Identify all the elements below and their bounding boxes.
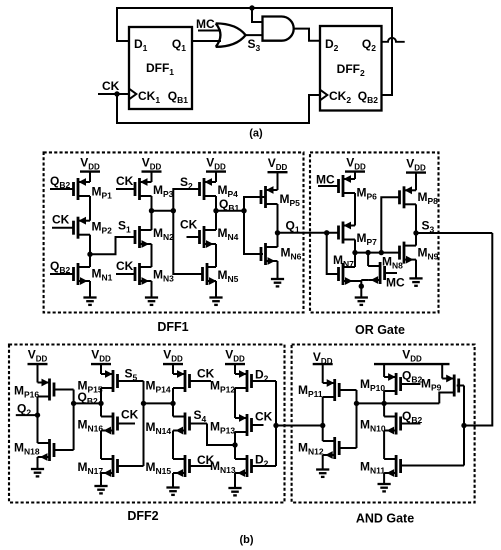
AND gate (part a) (263, 17, 294, 41)
transistor MP6 (PMOS) (318, 175, 355, 197)
transistor MN14 (NMOS, mirrored) (173, 403, 207, 459)
svg-text:MN6: MN6 (281, 246, 302, 262)
VDD supply (DFF2 colD) (225, 348, 245, 375)
wire: OR output S3 to AND gate (246, 34, 263, 36)
svg-text:MP8: MP8 (418, 190, 439, 206)
svg-text:S2: S2 (180, 175, 193, 191)
svg-text:VDD: VDD (406, 157, 426, 173)
VDD supply (DFF1 col4) (268, 156, 288, 190)
label MN14 (146, 420, 172, 436)
transistor MN11 (NMOS, mirrored) (384, 455, 464, 477)
svg-text:OR Gate: OR Gate (355, 323, 405, 337)
label MN2 (153, 226, 174, 242)
master node wire and junctions (149, 208, 176, 213)
wire D2 from AND gate output (276, 425, 323, 427)
ground at MN11 (378, 473, 391, 491)
ground at MN3 (145, 281, 158, 305)
label MN3 (153, 268, 174, 284)
wire: AND output to D2 (294, 29, 320, 41)
label MP7 (357, 231, 378, 247)
wire NOR node to MP8 gate (381, 197, 400, 252)
svg-text:CK: CK (116, 259, 134, 273)
VDD supply (AND left) (313, 350, 333, 383)
label MP5 (280, 192, 301, 208)
label CK at MP13 gate (255, 410, 273, 424)
svg-text:CK: CK (102, 79, 120, 93)
svg-text:Q1: Q1 (286, 219, 300, 235)
transistor MP15 (PMOS, mirrored) (101, 370, 144, 403)
wire S3 riser MP9/MN11 gates with junction (461, 386, 466, 466)
label QB2 at MP10 gate (402, 369, 422, 385)
label MP15 (78, 379, 103, 395)
label S5 (125, 367, 138, 383)
wire: Q1 to OR gate (192, 40, 221, 42)
svg-text:VDD: VDD (91, 348, 111, 364)
transistor MN15 (NMOS, mirrored) (173, 455, 212, 477)
label S4 (194, 408, 207, 424)
svg-text:QB1: QB1 (168, 89, 188, 105)
VDD supply (AND right, shared) (374, 348, 450, 379)
svg-text:MN5: MN5 (218, 268, 239, 284)
svg-text:S1: S1 (118, 219, 131, 235)
label MN10 (360, 418, 386, 434)
label CK at MN15 gate (197, 453, 215, 467)
ground at MN1 (83, 281, 96, 305)
ground at MN12 (316, 455, 329, 477)
label MP11 (298, 383, 323, 399)
transistor MP1 (PMOS) (50, 178, 90, 200)
label QB2 at MN10 gate (402, 409, 422, 425)
svg-text:DFF2: DFF2 (337, 62, 365, 78)
pin MC input to OR gate (196, 17, 221, 31)
label MN4 (218, 226, 239, 242)
label S2 (180, 175, 193, 191)
label MP6 (357, 185, 378, 201)
svg-text:MN11: MN11 (360, 460, 385, 476)
transistor MP16 (PMOS, mirrored) (38, 379, 74, 401)
svg-text:MP5: MP5 (280, 192, 301, 208)
transistor MN5 (NMOS) (203, 263, 217, 285)
transistor MP11 (PMOS, mirrored) (323, 379, 357, 401)
transistor MN4 (NMOS) (187, 211, 217, 267)
svg-text:S3: S3 (248, 37, 261, 53)
transistor MN2 (NMOS) (135, 211, 152, 267)
svg-text:DFF1: DFF1 (146, 61, 174, 77)
VDD supply (DFF1 col3) (206, 156, 226, 183)
section box OR Gate (310, 152, 439, 337)
svg-text:CK: CK (116, 174, 134, 188)
wire S5 riser to MN17 gate with junction (141, 381, 146, 466)
OR gate S3 (part a) (216, 23, 261, 53)
svg-text:(a): (a) (249, 128, 263, 140)
svg-text:VDD: VDD (28, 348, 48, 364)
ground at MN15 (166, 473, 179, 495)
block DFF2 (part a) (320, 26, 382, 111)
label MN11 (360, 460, 385, 476)
svg-text:MN18: MN18 (14, 441, 40, 457)
label MN17 (78, 460, 104, 476)
svg-text:Q2: Q2 (362, 37, 376, 53)
transistor MN13 (NMOS, mirrored) (235, 445, 276, 477)
svg-text:Q1: Q1 (172, 37, 186, 53)
label MC at MN8 gate (386, 276, 405, 290)
svg-text:MN1: MN1 (92, 267, 113, 283)
label CK at MP2 gate (52, 213, 70, 227)
wire gates riser MP11/MN12 with NAND junction (354, 390, 359, 448)
node QB1 wire and junctions (213, 208, 246, 213)
label MP9 (421, 377, 442, 393)
svg-text:VDD: VDD (206, 156, 226, 172)
label MP16 (14, 384, 39, 400)
wire gates riser MP16/MN18 with QB2 junction (71, 390, 76, 451)
svg-text:MC: MC (386, 276, 405, 290)
section box AND Gate (292, 345, 475, 526)
svg-text:MN2: MN2 (153, 226, 174, 242)
node Q1 entry junction / wires to MP7 and MN7 gates (324, 230, 339, 274)
node Q2 junction and stub (16, 397, 40, 418)
transistor MP9 (PMOS, mirrored) (439, 375, 464, 404)
svg-text:CK: CK (121, 408, 139, 422)
svg-text:MC: MC (316, 173, 335, 187)
svg-text:MN10: MN10 (360, 418, 386, 434)
label D2 at MN13 gate (255, 453, 269, 469)
ground at MN6 (271, 261, 284, 286)
svg-text:CK: CK (52, 213, 70, 227)
VDD supply (OR right) (406, 157, 426, 191)
svg-text:QB2: QB2 (50, 259, 70, 275)
wire QB1 to MP5 and MN6 gates (244, 197, 265, 254)
VDD supply (DFF1 col1) (80, 156, 100, 183)
svg-text:MN16: MN16 (78, 418, 104, 434)
transistor MP8 (PMOS) (400, 186, 417, 233)
transistor MN3 (NMOS) (116, 263, 152, 285)
transistor MP2 (PMOS) (52, 217, 90, 239)
transistor MP3 (PMOS) (116, 178, 152, 200)
label MP8 (418, 190, 439, 206)
label (a) (249, 128, 263, 140)
label S1 (118, 219, 131, 235)
label CK at MP14 gate (197, 367, 215, 381)
label MP2 (92, 220, 113, 236)
label MN16 (78, 418, 104, 434)
svg-text:VDD: VDD (80, 156, 100, 172)
label MN15 (146, 460, 172, 476)
label MP14 (146, 379, 171, 395)
svg-text:MN4: MN4 (218, 226, 239, 242)
ground at MN5 (209, 281, 222, 305)
svg-text:MN13: MN13 (210, 459, 236, 475)
svg-text:MP16: MP16 (14, 384, 39, 400)
wire: CK to CK2 (bottom rail) (117, 94, 320, 123)
svg-text:MN7: MN7 (333, 253, 354, 269)
node D junction (MP13/MN13 drains) (232, 442, 237, 447)
label MN8 (382, 255, 403, 271)
svg-text:D2: D2 (255, 368, 269, 384)
pin CK input wire with junction (98, 79, 129, 97)
section box DFF2 (9, 345, 285, 524)
svg-text:MP7: MP7 (357, 231, 378, 247)
svg-text:VDD: VDD (225, 348, 245, 364)
svg-text:D2: D2 (325, 37, 339, 53)
label QB2 at MP1 gate (50, 174, 70, 190)
node Q1 junction and wire to OR section (275, 230, 339, 235)
svg-text:(b): (b) (239, 534, 253, 546)
transistor MN16 (NMOS, mirrored) (101, 403, 135, 459)
transistor MP4 (PMOS) (200, 178, 217, 200)
wire MP3 drain to master node (151, 196, 153, 211)
ground shared MN7/MN8 (355, 298, 368, 305)
VDD supply (DFF2 colB) (91, 348, 111, 375)
svg-text:QB1: QB1 (219, 197, 239, 213)
transistor MP7 (PMOS) (339, 222, 356, 253)
label MN5 (218, 268, 239, 284)
VDD supply (DFF2 colC) (163, 348, 183, 375)
svg-text:MN9: MN9 (418, 246, 439, 262)
svg-text:Q2: Q2 (17, 402, 31, 418)
svg-text:MN17: MN17 (78, 460, 104, 476)
ground at MN17 (94, 473, 107, 493)
svg-text:VDD: VDD (346, 156, 366, 172)
wire node S2 / MN5 gate riser (173, 189, 202, 274)
wire node S1 to MN2 gate (90, 237, 135, 254)
label CK at MN16 gate (121, 408, 139, 422)
label Q1 (286, 219, 300, 235)
NOR node wire with junctions (352, 250, 400, 255)
junction on feedback rail to AND gate input (249, 5, 262, 22)
wire MP2 drain to node (89, 235, 91, 255)
label MN1 (92, 267, 113, 283)
VDD supply (DFF2 colA) (28, 348, 48, 383)
transistor MN6 (NMOS) (261, 233, 278, 265)
label (b) (239, 534, 253, 546)
svg-text:VDD: VDD (142, 156, 162, 172)
svg-text:MC: MC (196, 17, 215, 31)
VDD supply (OR left) (345, 156, 366, 180)
wire MP1 drain - MP2 source (89, 196, 91, 221)
label CK at MP3 gate (116, 174, 134, 188)
label MP13 (210, 420, 235, 436)
node QB2 wire (74, 401, 104, 406)
svg-text:QB2: QB2 (50, 174, 70, 190)
wire MP4 drain to node QB1 (215, 196, 217, 211)
NAND node wire with junction (357, 401, 440, 406)
svg-text:MP13: MP13 (210, 420, 235, 436)
transistor MN9 (NMOS) (400, 233, 417, 264)
wire common sources MN7/MN8 to ground (355, 280, 368, 298)
svg-text:QB2: QB2 (358, 89, 378, 105)
svg-text:DFF1: DFF1 (157, 320, 188, 334)
label MP10 (360, 377, 385, 393)
transistor MP13 (PMOS, mirrored) (235, 414, 264, 445)
node D2 output junction (320, 397, 325, 428)
transistor MP12 (PMOS, mirrored) (235, 370, 276, 418)
svg-text:S3: S3 (422, 219, 435, 235)
label MP12 (210, 379, 235, 395)
ground at MN9 (409, 260, 422, 286)
transistor MN8 (NMOS, mirrored) (368, 253, 397, 284)
label QB2 at MN1 gate (50, 259, 70, 275)
label QB1 (219, 197, 239, 213)
svg-text:S4: S4 (194, 408, 207, 424)
svg-text:MP3: MP3 (153, 183, 174, 199)
label MN18 (14, 441, 40, 457)
svg-text:MP11: MP11 (298, 383, 323, 399)
svg-text:MP14: MP14 (146, 379, 171, 395)
svg-text:MP9: MP9 (421, 377, 442, 393)
svg-text:MN14: MN14 (146, 420, 172, 436)
svg-text:MN3: MN3 (153, 268, 174, 284)
node S1 junction (87, 252, 92, 257)
transistor MP10 (PMOS, mirrored) (384, 373, 420, 403)
transistor MN7 (NMOS) (339, 253, 356, 285)
transistor MP14 (PMOS, mirrored) (173, 370, 211, 403)
slave node wire (144, 401, 176, 406)
label MP3 (153, 183, 174, 199)
wire S4 riser to D-node (207, 424, 235, 446)
label S3 (OR output) (422, 219, 435, 235)
label CK at MN4 gate (180, 218, 198, 232)
label MN7 (333, 253, 354, 269)
label MP4 (218, 183, 239, 199)
transistor MN18 (NMOS, mirrored) (38, 415, 74, 461)
transistor MP5 (PMOS) (261, 186, 278, 233)
transistor MN17 (NMOS, mirrored) (101, 455, 144, 477)
transistor MN1 (NMOS) (50, 254, 90, 285)
label D2 at MP12 gate (255, 368, 269, 384)
svg-text:CK2: CK2 (329, 89, 351, 105)
label CK at MN3 gate (116, 259, 134, 273)
svg-text:D2: D2 (255, 453, 269, 469)
svg-text:MP10: MP10 (360, 377, 385, 393)
wire: feedback rail QB2 -> D1 (top) (117, 8, 392, 95)
label QB2 (DFF2) (78, 390, 98, 406)
transistor MN12 (NMOS, mirrored) (323, 426, 357, 460)
label MN12 (298, 441, 324, 457)
svg-text:QB2: QB2 (402, 369, 422, 385)
svg-text:MN12: MN12 (298, 441, 324, 457)
svg-text:D1: D1 (134, 37, 148, 53)
svg-text:VDD: VDD (268, 156, 288, 172)
wire S3 from OR gate (right edge) (464, 233, 492, 426)
label MN9 (418, 246, 439, 262)
svg-text:MP12: MP12 (210, 379, 235, 395)
wire: Q2 output with crossover hop (382, 38, 405, 42)
label MN13 (210, 459, 236, 475)
svg-text:CK: CK (255, 410, 273, 424)
svg-text:MP1: MP1 (92, 185, 113, 201)
label MP1 (92, 185, 113, 201)
wire D2 riser MP12/MN13 gates with junction (273, 381, 278, 466)
wire MP6 drain - MP7 source (354, 193, 356, 226)
svg-text:VDD: VDD (163, 348, 183, 364)
label MN6 (281, 246, 302, 262)
svg-text:MP6: MP6 (357, 185, 378, 201)
svg-text:CK: CK (180, 218, 198, 232)
svg-text:VDD: VDD (402, 348, 422, 364)
node S3 junction and output wire (413, 230, 492, 235)
VDD supply (DFF1 col2) (142, 156, 162, 183)
ground at MN13 (228, 473, 241, 495)
transistor MN10 (NMOS, mirrored) (384, 403, 420, 459)
svg-text:MP2: MP2 (92, 220, 113, 236)
section box DFF1 (44, 152, 304, 334)
block DFF1 (part a) (129, 27, 192, 109)
label MC at MP6 gate (316, 173, 335, 187)
svg-text:AND Gate: AND Gate (356, 512, 414, 526)
svg-text:CK1: CK1 (138, 89, 160, 105)
svg-text:MP15: MP15 (78, 379, 103, 395)
svg-text:QB2: QB2 (402, 409, 422, 425)
label Q2 (17, 402, 31, 418)
svg-text:MN15: MN15 (146, 460, 172, 476)
svg-text:S5: S5 (125, 367, 138, 383)
svg-text:DFF2: DFF2 (127, 509, 158, 523)
ground at MN18 (31, 457, 44, 476)
